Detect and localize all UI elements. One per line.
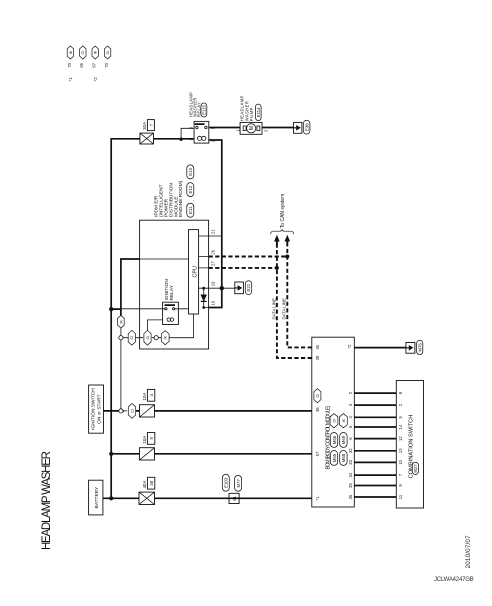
svg-text:10: 10 xyxy=(398,459,403,464)
svg-text:To CAN system: To CAN system xyxy=(280,194,286,228)
svg-text:ENGINE ROOM): ENGINE ROOM) xyxy=(178,180,184,217)
svg-text:E38: E38 xyxy=(304,123,309,131)
svg-text:14: 14 xyxy=(398,424,403,429)
svg-text:40A: 40A xyxy=(142,481,147,489)
svg-text:39: 39 xyxy=(315,355,320,360)
svg-text:26: 26 xyxy=(210,249,215,254)
svg-text:11: 11 xyxy=(398,494,403,499)
svg-text:2: 2 xyxy=(210,139,215,142)
svg-text:M68: M68 xyxy=(341,453,346,462)
svg-text:5: 5 xyxy=(210,126,215,129)
svg-text:67: 67 xyxy=(92,62,97,67)
svg-text:8: 8 xyxy=(398,391,403,394)
svg-text:CI: CI xyxy=(81,51,85,55)
svg-text:M: M xyxy=(249,126,255,130)
svg-text:*1: *1 xyxy=(68,77,73,82)
svg-text:IK: IK xyxy=(164,335,168,339)
svg-text:IK: IK xyxy=(119,320,123,324)
svg-text:5: 5 xyxy=(348,425,353,428)
svg-text:BCM (BODY CONTROL MODULE): BCM (BODY CONTROL MODULE) xyxy=(325,405,331,469)
svg-text:7: 7 xyxy=(398,473,403,476)
svg-text:12: 12 xyxy=(398,436,403,441)
svg-text:70: 70 xyxy=(104,62,109,67)
svg-text:CI: CI xyxy=(316,394,320,398)
svg-text:2: 2 xyxy=(348,391,353,394)
svg-text:2: 2 xyxy=(398,403,403,406)
svg-text:1: 1 xyxy=(235,128,240,131)
svg-text:2010/07/07: 2010/07/07 xyxy=(465,535,472,568)
svg-text:65: 65 xyxy=(79,62,84,67)
svg-text:36: 36 xyxy=(348,494,353,499)
svg-text:E21: E21 xyxy=(246,283,251,291)
svg-text:RELAY: RELAY xyxy=(196,102,201,117)
svg-text:HEADLAMP WASHER: HEADLAMP WASHER xyxy=(41,451,53,550)
svg-text:10: 10 xyxy=(210,300,215,305)
svg-text:7: 7 xyxy=(149,123,154,126)
svg-text:91: 91 xyxy=(232,495,237,500)
svg-text:27: 27 xyxy=(210,261,215,266)
svg-text:,: , xyxy=(190,179,195,180)
svg-text:70: 70 xyxy=(67,62,72,67)
svg-text:E12: E12 xyxy=(188,185,193,193)
svg-text:,: , xyxy=(190,200,195,201)
svg-text:9: 9 xyxy=(398,484,403,487)
svg-text:E103: E103 xyxy=(224,477,229,488)
svg-text:32: 32 xyxy=(348,448,353,453)
svg-text:M76: M76 xyxy=(418,343,423,352)
svg-text:21: 21 xyxy=(210,229,215,234)
svg-text:E13: E13 xyxy=(188,167,193,175)
svg-text:PUMP: PUMP xyxy=(249,107,254,121)
svg-text:2: 2 xyxy=(263,129,268,132)
svg-text:3: 3 xyxy=(189,126,194,129)
svg-text:33: 33 xyxy=(348,459,353,464)
svg-text:*1: *1 xyxy=(315,496,320,501)
svg-text:M69: M69 xyxy=(341,435,346,444)
svg-text:40: 40 xyxy=(315,344,320,349)
svg-text:IK: IK xyxy=(69,50,73,54)
svg-text:4: 4 xyxy=(149,394,154,397)
svg-text:1: 1 xyxy=(189,138,194,141)
svg-text:5: 5 xyxy=(398,415,403,418)
svg-text:3: 3 xyxy=(348,403,353,406)
svg-text:10A: 10A xyxy=(142,393,147,401)
svg-text:6: 6 xyxy=(348,437,353,440)
svg-text:38: 38 xyxy=(315,407,320,412)
svg-text:E11: E11 xyxy=(188,206,193,214)
svg-text:34: 34 xyxy=(348,472,353,477)
svg-text:13: 13 xyxy=(398,448,403,453)
svg-text:30A: 30A xyxy=(142,122,147,130)
svg-text:BATTERY: BATTERY xyxy=(94,486,100,508)
svg-text:ON or START: ON or START xyxy=(96,394,102,423)
svg-text:IK: IK xyxy=(342,418,346,422)
svg-text:9: 9 xyxy=(149,437,154,440)
svg-text:CPU: CPU xyxy=(192,266,198,277)
svg-text:19: 19 xyxy=(210,281,215,286)
svg-text:RELAY: RELAY xyxy=(169,284,175,300)
svg-text:57: 57 xyxy=(315,451,320,456)
svg-text:M65: M65 xyxy=(332,453,337,462)
svg-text:M77: M77 xyxy=(236,479,241,488)
svg-text:E114: E114 xyxy=(256,107,261,117)
svg-text:CI: CI xyxy=(130,336,134,340)
svg-text:38: 38 xyxy=(149,480,154,485)
svg-text:CI: CI xyxy=(106,51,110,55)
svg-text:M66: M66 xyxy=(332,435,337,444)
svg-text:CI: CI xyxy=(130,409,134,413)
svg-text:35: 35 xyxy=(348,483,353,488)
svg-text:10A: 10A xyxy=(142,436,147,444)
svg-text:CI: CI xyxy=(332,419,336,423)
svg-text:COMBINATION SWITCH: COMBINATION SWITCH xyxy=(408,415,414,479)
svg-text:E115: E115 xyxy=(202,105,207,115)
svg-text:*2: *2 xyxy=(93,77,98,82)
svg-text:DATA LINE: DATA LINE xyxy=(282,298,287,319)
svg-text:4: 4 xyxy=(348,415,353,418)
svg-text:IK: IK xyxy=(94,50,98,54)
svg-text:*2: *2 xyxy=(347,344,352,349)
svg-text:IGNITION SWITCH: IGNITION SWITCH xyxy=(91,388,97,430)
svg-text:DATA LINE: DATA LINE xyxy=(271,298,276,319)
svg-text:CI: CI xyxy=(146,336,150,340)
